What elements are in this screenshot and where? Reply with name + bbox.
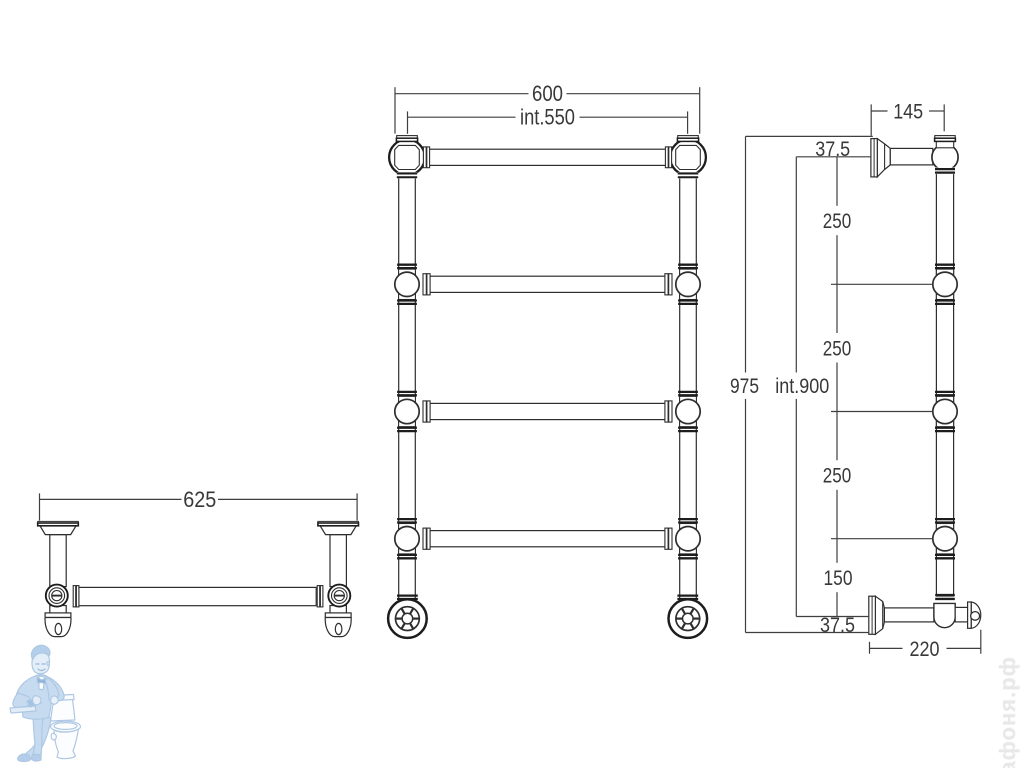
plan view: left wall bracket, post, ball joint and foot xyxy=(38,521,79,636)
front: right T-joint rail4 xyxy=(665,519,700,558)
side view: top joint ball with cap xyxy=(932,136,958,175)
front: top-left corner joint xyxy=(389,136,429,179)
face xyxy=(32,653,50,674)
side view: top wall bracket xyxy=(871,139,890,177)
side view: bottom arm tube xyxy=(884,608,934,622)
glove on tank xyxy=(51,696,59,704)
svg-text:int.550: int.550 xyxy=(520,105,575,130)
front: left castor wheel xyxy=(388,596,427,638)
svg-text:37.5: 37.5 xyxy=(820,614,855,637)
ear / features xyxy=(47,662,49,666)
front view: towel rail 4 xyxy=(429,531,666,547)
shoes xyxy=(18,754,30,762)
dim int.900 vertical xyxy=(775,157,829,617)
logo: plumber cartoon leaning on toilet xyxy=(5,640,90,768)
svg-text:250: 250 xyxy=(823,465,852,488)
svg-text:int.900: int.900 xyxy=(775,375,829,398)
shirt xyxy=(39,676,45,690)
right arm resting on tank xyxy=(45,678,59,703)
bow tie xyxy=(37,677,46,684)
front view: towel rail 2 xyxy=(429,276,666,292)
man: rear leg xyxy=(24,716,51,760)
front: right T-joint rail2 xyxy=(665,265,700,304)
man: front leg xyxy=(33,716,43,756)
side view: bottom wall bracket xyxy=(869,596,885,634)
side view: post xyxy=(936,160,953,596)
front: right T-joint rail3 xyxy=(665,392,700,431)
side view: joint level 2 xyxy=(933,265,957,304)
plan view: right wall bracket, post, ball joint and foot xyxy=(317,521,358,636)
side view: joint level 3 xyxy=(933,392,957,431)
svg-text:250: 250 xyxy=(823,337,852,360)
plan view: rail tube xyxy=(79,587,316,605)
svg-text:625: 625 xyxy=(183,487,216,512)
front: left T-joint rail4 xyxy=(395,519,430,558)
front: left T-joint rail3 xyxy=(395,392,430,431)
toilet bowl rim xyxy=(51,721,81,732)
svg-text:220: 220 xyxy=(910,638,940,661)
side view: bottom T body xyxy=(934,595,955,628)
svg-text:250: 250 xyxy=(823,210,852,233)
svg-text:145: 145 xyxy=(893,101,923,124)
dim 625 xyxy=(40,487,358,521)
side view: joint level 4 xyxy=(933,519,957,558)
dim 975 vertical xyxy=(730,136,759,632)
svg-text:600: 600 xyxy=(532,81,563,106)
front: left T-joint rail2 xyxy=(395,265,430,304)
dim 600 xyxy=(395,81,700,133)
side view: right stub and end cap with oval xyxy=(955,602,981,628)
front view: right post xyxy=(680,160,697,599)
hair xyxy=(31,645,50,659)
dim int.550 xyxy=(408,105,688,134)
svg-text:975: 975 xyxy=(730,375,759,398)
front view: towel rail 1 (top) xyxy=(429,149,666,165)
side dim horizontal ticks xyxy=(746,136,933,632)
side view: top arm tube xyxy=(890,148,933,165)
toilet pedestal xyxy=(54,729,79,759)
dim chain vertical with 37.5/250/250/250/150/37.5 xyxy=(815,138,855,637)
front: right castor wheel xyxy=(669,596,708,638)
front view: towel rail 3 xyxy=(429,403,666,419)
dim 145 xyxy=(871,101,944,136)
svg-text:150: 150 xyxy=(824,567,853,590)
dim 220 xyxy=(870,630,981,661)
torso / jacket xyxy=(16,675,64,720)
left arm akimbo with wrench xyxy=(13,693,30,710)
toilet tank xyxy=(51,699,76,721)
front: top-right corner joint xyxy=(665,136,705,179)
front view: left post xyxy=(399,160,416,599)
svg-text:37.5: 37.5 xyxy=(815,138,850,161)
watermark vertical text xyxy=(984,645,1024,768)
